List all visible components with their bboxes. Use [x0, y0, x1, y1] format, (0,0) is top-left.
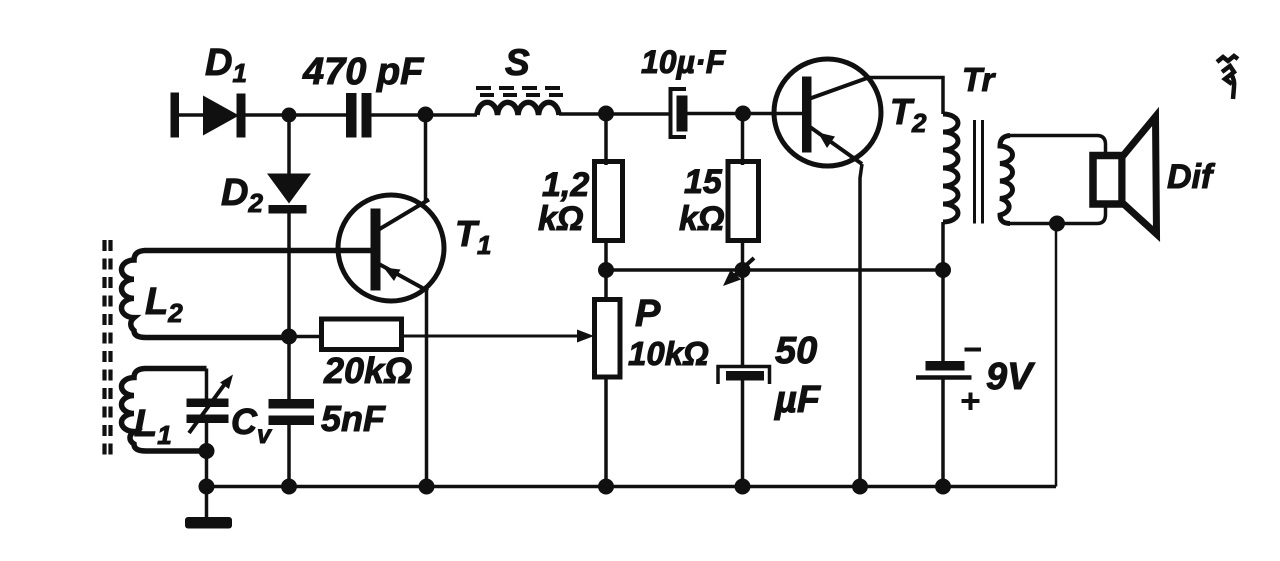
capacitor 10uF	[671, 89, 688, 137]
wire 5nF to bus	[287, 425, 291, 487]
wire D2 to L2-bottom node	[287, 214, 291, 338]
diode D2	[267, 174, 311, 214]
svg-text:50: 50	[775, 330, 817, 372]
resistor 15k	[728, 162, 759, 241]
svg-text:kΩ: kΩ	[538, 200, 583, 238]
node F (15k bottom / 50uF)	[735, 262, 751, 278]
wire 15k bottom to rail	[741, 241, 745, 271]
svg-text:20kΩ: 20kΩ	[323, 350, 412, 391]
wire node H down to 5nF	[287, 337, 291, 401]
transistor T1	[338, 195, 444, 301]
svg-text:10µ·F: 10µ·F	[641, 44, 727, 80]
capacitor 5nF	[269, 399, 315, 425]
wire T1 emitter down to bus	[425, 291, 429, 487]
battery 9V	[916, 270, 981, 487]
antenna input terminal	[171, 93, 180, 138]
svg-text:P: P	[635, 293, 661, 335]
wire node A down to D2	[287, 115, 291, 174]
coil L2 with leads (top lead is T1 base wire)	[121, 251, 370, 338]
wire node B down to T1 collector	[424, 115, 428, 203]
inductor S	[477, 102, 559, 115]
svg-text:9V: 9V	[986, 356, 1035, 398]
node I (L1 bottom / Cv bottom)	[199, 443, 215, 459]
speaker driver	[1093, 156, 1122, 205]
svg-text:kΩ: kΩ	[679, 200, 724, 238]
wire primary bottom to node G	[941, 222, 945, 270]
node J (speaker bottom)	[1049, 216, 1065, 232]
wire D1 to node A	[246, 113, 348, 117]
transistor T2	[774, 59, 881, 166]
svg-text:10kΩ: 10kΩ	[628, 335, 709, 372]
wiper arrow at node F	[723, 258, 754, 286]
svg-text:5nF: 5nF	[321, 398, 386, 439]
ink scribble artifact	[1217, 56, 1238, 99]
wire 470pF to S coil	[372, 113, 478, 117]
wire T2 emitter down	[860, 164, 862, 487]
wire L2 bottom node to 20k	[289, 335, 322, 339]
wire 1.2k bottom to rail	[604, 241, 608, 271]
svg-text:Tr: Tr	[962, 61, 997, 98]
transformer secondary coil + speaker box	[1000, 136, 1106, 224]
svg-text:1,2: 1,2	[542, 166, 589, 204]
node B (T1 collector junction)	[418, 107, 434, 123]
variable capacitor Cv	[187, 369, 234, 453]
transformer Tr primary coil	[943, 114, 958, 222]
svg-text:470 pF: 470 pF	[302, 51, 425, 93]
ferrite rod dashed line	[105, 240, 111, 455]
coil L1 with leads	[121, 369, 206, 452]
wire 10uF to T2 base	[687, 112, 803, 116]
node H (L2 bottom)	[281, 329, 297, 345]
node C (1.2k top)	[598, 106, 614, 122]
svg-text:S: S	[505, 42, 530, 83]
svg-text:15: 15	[684, 163, 723, 201]
wire node I to bus	[205, 451, 209, 487]
potentiometer P	[595, 270, 621, 487]
wire bus right to speaker	[1055, 224, 1058, 487]
ground	[185, 487, 232, 529]
node E (P top)	[598, 262, 614, 278]
svg-text:µF: µF	[774, 379, 822, 421]
svg-text:Dif: Dif	[1167, 158, 1216, 196]
capacitor 470pF	[346, 93, 372, 138]
capacitor 50uF	[718, 270, 770, 487]
S core dashes	[476, 88, 563, 95]
diode D1	[203, 94, 246, 138]
bus nodes	[199, 479, 952, 495]
transformer core	[975, 120, 983, 224]
resistor 20k	[322, 319, 402, 350]
bottom bus wire	[207, 485, 1057, 489]
wire node C to 1.2k resistor	[604, 114, 608, 166]
rail mid (y=270)	[606, 268, 943, 272]
node G (battery top)	[935, 262, 951, 278]
wire input to D1	[179, 113, 205, 117]
node D (15k top / T2 base)	[735, 106, 751, 122]
wire S to 10uF	[559, 112, 671, 116]
resistor 1.2k	[595, 162, 623, 241]
wire T2 collector to transformer	[869, 78, 943, 115]
wire 20k to P wiper with arrow	[402, 330, 595, 343]
node A (D1/D2/470pF junction)	[282, 108, 297, 123]
speaker horn Dif	[1122, 117, 1157, 235]
wire node D to 15k	[741, 114, 745, 166]
